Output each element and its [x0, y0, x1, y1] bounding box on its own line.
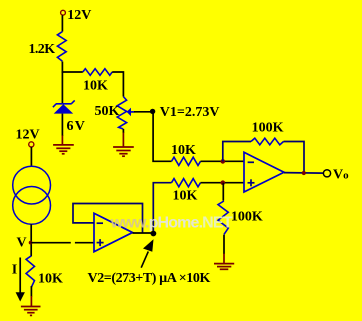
terminal Vo — [323, 170, 330, 177]
wire node V to op-amp U1 (with gap) — [31, 242, 71, 244]
svg-text:10K: 10K — [171, 143, 196, 158]
svg-text:V: V — [17, 235, 27, 250]
wire V2 node up to lower 10K — [153, 183, 171, 234]
svg-text:100K: 100K — [252, 121, 284, 136]
junction dot U2 non-inverting — [221, 180, 226, 185]
node V1 junction dot — [150, 109, 155, 114]
wire current source to node V — [30, 224, 32, 256]
ground G1 under zener — [53, 145, 74, 154]
svg-text:1.2K: 1.2K — [29, 42, 56, 57]
svg-text:www.pHome.NET: www.pHome.NET — [110, 215, 233, 232]
resistor R3 10K upper — [172, 157, 201, 165]
node V2 junction dot — [151, 231, 157, 237]
wire V1 node down to upper 10K — [153, 111, 171, 161]
svg-text:V1=2.73V: V1=2.73V — [160, 105, 220, 120]
resistor R7 10K bottom-left — [26, 256, 34, 287]
pointer arrow to V2 node — [141, 239, 153, 267]
ground G3 bottom-left — [21, 307, 41, 316]
wire terminal to current source — [30, 147, 32, 166]
ground G4 under 100K — [214, 264, 234, 270]
wire junction to zener — [61, 72, 63, 104]
svg-text:12V: 12V — [16, 128, 40, 143]
resistor R1 1.2K — [57, 32, 66, 62]
current source I1 (two circles) — [13, 166, 51, 224]
wire R1 to junction — [61, 62, 63, 73]
resistor R2 10K horizontal — [83, 69, 112, 76]
ground G2 under pot — [113, 147, 134, 156]
terminal 12V left — [29, 142, 34, 147]
wire R2 to pot top — [112, 72, 123, 97]
svg-text:100K: 100K — [231, 209, 263, 224]
feedback loop of U1 — [73, 204, 143, 234]
wire R7 to ground — [30, 286, 32, 296]
svg-text:10K: 10K — [38, 272, 63, 287]
wire junction to R2 — [62, 71, 83, 73]
svg-text:10K: 10K — [173, 189, 198, 204]
svg-text:10K: 10K — [83, 79, 108, 94]
svg-text:V2=(273+T) µA ×10K: V2=(273+T) µA ×10K — [88, 271, 211, 286]
svg-text:6V: 6V — [67, 119, 87, 134]
wire terminal to R1 — [61, 15, 63, 31]
wire R3 to op-amp U2 inverting input — [201, 160, 245, 162]
wire pot bottom to ground — [122, 129, 124, 133]
junction dot output — [302, 171, 306, 175]
wiper arrow of pot — [127, 108, 153, 117]
wire zener to ground — [61, 114, 63, 136]
output wire U1 to node V2 — [133, 232, 154, 234]
svg-text:50K: 50K — [95, 104, 120, 119]
output wire U2 to Vo terminal — [284, 172, 323, 175]
resistor R6 100K to ground — [218, 183, 228, 263]
op-amp U1 — [94, 213, 133, 251]
wire R4 to op-amp U2 non-inverting input — [201, 182, 245, 184]
current arrow I — [16, 258, 25, 302]
zener diode D1 6V — [53, 100, 75, 113]
terminal +12V top — [61, 10, 66, 15]
op-amp U2 — [244, 152, 284, 192]
potentiometer RP 50K — [117, 97, 126, 130]
svg-text:I: I — [12, 262, 17, 277]
svg-text:12V: 12V — [67, 8, 91, 23]
feedback resistor R5 100K of U2 — [223, 138, 304, 173]
node V dot — [29, 241, 33, 245]
junction dot U2 inverting — [221, 159, 226, 164]
resistor R4 10K lower — [172, 179, 201, 187]
svg-text:Vo: Vo — [333, 167, 349, 182]
